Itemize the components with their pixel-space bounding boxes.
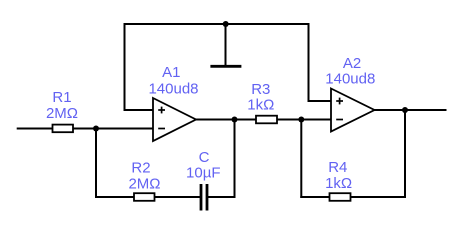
wire junction down to bottom feedback path bbox=[95, 129, 97, 199]
resistor R3 bbox=[256, 116, 277, 124]
label R1 bbox=[46, 89, 78, 122]
wire R1 to A1 inverting input bbox=[73, 128, 154, 130]
svg-text:1kΩ: 1kΩ bbox=[325, 175, 352, 192]
label R4 bbox=[325, 159, 352, 192]
wire C to feedback riser bbox=[208, 196, 236, 198]
svg-text:A2: A2 bbox=[343, 55, 361, 72]
label R2 bbox=[128, 160, 160, 193]
label C bbox=[186, 149, 221, 181]
resistor R2 bbox=[134, 193, 155, 201]
label A2 bbox=[325, 55, 375, 88]
svg-text:140ud8: 140ud8 bbox=[148, 80, 198, 97]
wire A1 output to R3 bbox=[195, 119, 257, 121]
svg-text:R2: R2 bbox=[131, 160, 150, 177]
label A1 bbox=[148, 64, 198, 97]
node top rail junction bbox=[223, 21, 229, 27]
label R3 bbox=[247, 81, 274, 114]
svg-text:2MΩ: 2MΩ bbox=[128, 176, 160, 193]
op-amp A2 bbox=[331, 89, 375, 132]
wire bottom path right left-segment bbox=[300, 196, 330, 198]
op-amp A1 bbox=[153, 98, 196, 141]
wire bottom path left segment bbox=[95, 196, 135, 198]
node junction below R1 bbox=[93, 126, 99, 132]
svg-text:2MΩ: 2MΩ bbox=[46, 105, 78, 122]
wire input lead bbox=[17, 128, 53, 130]
svg-text:140ud8: 140ud8 bbox=[325, 71, 375, 88]
node A2 output junction bbox=[402, 107, 408, 113]
ground stub bbox=[225, 24, 227, 66]
wire A1 non-inverting input stub up to top rail bbox=[125, 24, 154, 110]
resistor R4 bbox=[330, 193, 351, 201]
wire junction down to R4 path bbox=[300, 120, 302, 199]
node junction feeding R4 bbox=[298, 117, 304, 123]
svg-text:A1: A1 bbox=[162, 64, 180, 81]
ground bar bbox=[210, 65, 241, 68]
wire feedback riser up to A1 output bbox=[234, 120, 236, 199]
wire top rail drop to A2 non-inverting input bbox=[309, 23, 332, 101]
wire top rail bbox=[124, 23, 309, 25]
wire R4 to output riser bbox=[351, 196, 407, 198]
wire R3 to A2 inverting input bbox=[277, 119, 332, 121]
svg-text:R3: R3 bbox=[251, 81, 270, 98]
node A1 output junction bbox=[232, 117, 238, 123]
wire R2 to capacitor C bbox=[155, 196, 201, 198]
resistor R1 bbox=[53, 125, 74, 133]
wire A2 output lead bbox=[374, 109, 447, 111]
wire output junction down to R4 path bbox=[404, 110, 406, 198]
svg-text:1kΩ: 1kΩ bbox=[247, 97, 274, 114]
capacitor C bbox=[200, 184, 203, 211]
svg-text:R4: R4 bbox=[328, 159, 347, 176]
svg-text:R1: R1 bbox=[52, 89, 71, 106]
svg-text:10µF: 10µF bbox=[186, 164, 221, 181]
